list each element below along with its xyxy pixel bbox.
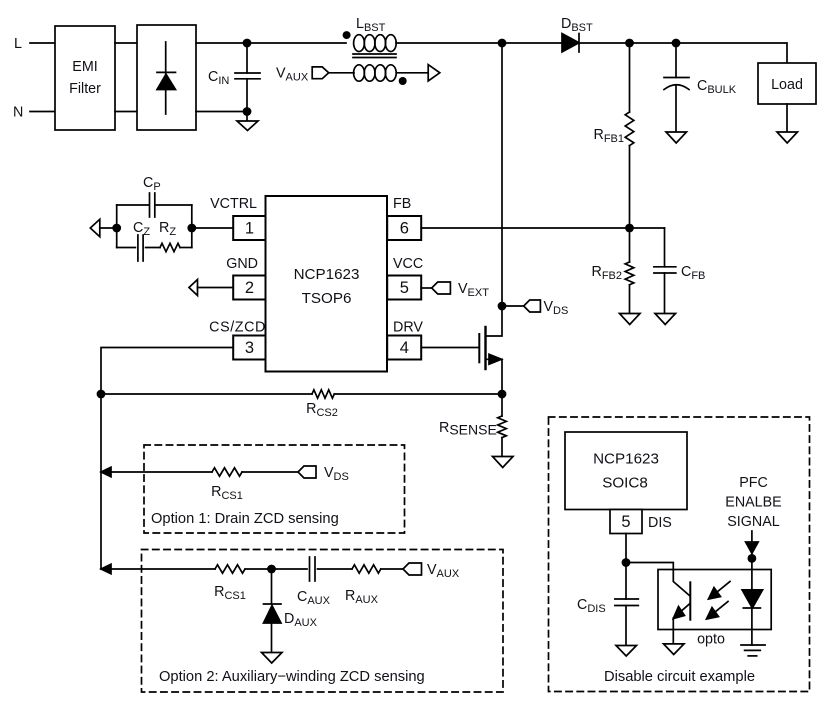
VAUX source tag: [276, 66, 329, 84]
ground below CFB: [655, 314, 676, 325]
svg-text:CS/ZCD: CS/ZCD: [209, 320, 266, 336]
wire winding to DBST: [396, 42, 562, 44]
wire CAUX to RAUX: [318, 568, 353, 570]
svg-text:Option 2: Auxiliary−winding ZC: Option 2: Auxiliary−winding ZCD sensing: [159, 669, 425, 685]
capacitor CAUX: [297, 557, 331, 607]
wire comp network to pin 1: [192, 227, 233, 229]
opto light arrows: [707, 582, 731, 620]
PFC enable text: [725, 475, 781, 530]
node comp left: [112, 224, 121, 233]
svg-text:DIS: DIS: [648, 515, 672, 531]
ground below RFB2: [620, 314, 641, 325]
wire to VDS tag: [502, 305, 524, 307]
wire N input: [30, 111, 55, 113]
svg-text:4: 4: [400, 339, 409, 357]
wire arrow to comp network: [100, 227, 117, 229]
ground below CIN: [237, 112, 258, 131]
pin 6 FB: [387, 196, 421, 240]
capacitor CFB: [654, 228, 705, 314]
pin 4 DRV: [387, 320, 423, 360]
wire pin 2 to arrow: [198, 287, 234, 289]
svg-text:5: 5: [400, 279, 409, 297]
svg-text:Disable circuit example: Disable circuit example: [604, 669, 755, 685]
node RFB1 top: [625, 39, 634, 48]
VEXT tag: [432, 281, 490, 299]
diode DBST: [561, 16, 593, 52]
capacitor CDIS: [577, 563, 638, 646]
option 2 dashed box: [142, 550, 504, 693]
wire bridge to boost inductor: [196, 42, 346, 44]
PFC enable arrow: [746, 531, 759, 553]
svg-text:5: 5: [621, 513, 630, 531]
inductor LBST label: [356, 16, 386, 34]
ground below opto emitter: [664, 644, 685, 655]
wire comp right vertical: [191, 205, 193, 248]
wire pin 4 to gate: [421, 347, 478, 349]
svg-text:ENALBE: ENALBE: [725, 495, 781, 511]
pin 5 VCC: [387, 256, 423, 300]
svg-text:FB: FB: [393, 196, 411, 212]
node CBULK top: [672, 39, 681, 48]
node VDS tap: [498, 302, 507, 311]
capacitor CIN: [208, 43, 260, 112]
resistor RAUX: [345, 565, 381, 606]
wire VAUX tag to aux winding: [329, 72, 354, 74]
wire option2: [108, 568, 215, 570]
resistor RCS1 option1: [211, 468, 243, 502]
svg-text:6: 6: [400, 220, 409, 238]
pin 1 VCTRL: [210, 196, 265, 240]
node DAUX junction: [267, 565, 276, 574]
svg-text:opto: opto: [697, 632, 725, 648]
resistor RSENSE: [439, 394, 506, 457]
resistor RCS2: [101, 390, 502, 419]
svg-text:1: 1: [245, 220, 254, 238]
capacitor CP: [117, 175, 192, 217]
ground below RSENSE: [493, 457, 514, 468]
wire RCS1 to VDS tag: [242, 471, 298, 473]
earth ground below LED: [741, 645, 765, 656]
node comp right: [187, 224, 196, 233]
aux output arrow: [428, 65, 440, 81]
op-amp U1 NCP1623 TSOP6 body: [266, 196, 388, 372]
compensation return arrow: [90, 219, 100, 236]
svg-text:Load: Load: [771, 77, 803, 93]
op-amp U2 NCP1623 SOIC8: [565, 432, 687, 510]
pin 2 GND: [226, 256, 265, 300]
pin 3 CS/ZCD: [209, 320, 266, 360]
VDS tag: [524, 299, 569, 317]
ground below load: [777, 132, 798, 143]
capacitor CBULK: [664, 43, 737, 132]
svg-text:NCP1623: NCP1623: [294, 266, 360, 283]
wire node to opto: [626, 563, 673, 571]
wire option1: [108, 471, 212, 473]
wire pin 6 FB to divider: [421, 227, 664, 229]
disable circuit dashed box: [549, 417, 810, 692]
svg-text:TSOP6: TSOP6: [302, 290, 352, 307]
wire EMI to bridge top: [115, 42, 137, 44]
resistor RFB1: [593, 43, 633, 228]
node CS junction: [97, 390, 106, 399]
wire drain vertical: [501, 43, 503, 306]
wire RCS1 to CAUX: [245, 568, 307, 570]
wire aux winding output: [396, 72, 428, 74]
svg-text:Option 1: Drain ZCD sensing: Option 1: Drain ZCD sensing: [151, 511, 339, 527]
aux winding: [354, 65, 407, 85]
resistor RZ: [159, 220, 192, 252]
VDS tag option1: [298, 465, 349, 483]
inductor LBST primary winding: [343, 31, 397, 51]
ground arrow pin 2: [189, 280, 198, 296]
svg-text:EMI: EMI: [72, 59, 97, 75]
opto phototransistor: [673, 570, 690, 644]
wire EMI to bridge bottom: [115, 111, 137, 113]
bridge rectifier: [137, 25, 196, 130]
resistor RFB2: [591, 228, 633, 314]
node DIS: [622, 558, 631, 567]
node at CIN bottom: [243, 107, 252, 116]
svg-text:PFC: PFC: [739, 475, 768, 491]
ground below CBULK: [666, 132, 687, 143]
node source junction: [498, 390, 507, 399]
wire pin 3 left: [101, 348, 233, 570]
EMI filter block: [55, 26, 115, 130]
transistor Q1: [479, 306, 502, 394]
wire RAUX to VAUX tag: [381, 568, 403, 570]
load block: [758, 63, 816, 104]
VAUX tag option2: [403, 562, 460, 580]
wire comp left vertical: [116, 205, 118, 248]
transformer core: [353, 54, 396, 58]
option 1 dashed box: [144, 445, 405, 533]
wire load to ground: [786, 104, 788, 132]
svg-text:2: 2: [245, 279, 254, 297]
node FB divider: [625, 224, 634, 233]
svg-text:VCC: VCC: [393, 256, 423, 272]
svg-text:Filter: Filter: [69, 81, 101, 97]
ground below CDIS: [616, 646, 637, 657]
capacitor CZ: [117, 220, 160, 261]
wire pin 5 to VEXT: [421, 287, 432, 289]
arrow option1 to CS node: [101, 467, 111, 477]
svg-text:GND: GND: [226, 256, 258, 272]
svg-text:SIGNAL: SIGNAL: [727, 514, 779, 530]
pin 5 DIS: [610, 510, 672, 534]
node N: [13, 105, 23, 121]
svg-text:VCTRL: VCTRL: [210, 196, 257, 212]
node L: [14, 36, 22, 52]
svg-text:3: 3: [245, 339, 254, 357]
wire L input: [30, 42, 55, 44]
svg-text:RSENSE: RSENSE: [439, 420, 497, 438]
svg-text:N: N: [13, 105, 23, 121]
node LED top: [748, 554, 757, 563]
wire pin5 down: [625, 534, 627, 563]
ground below DAUX: [262, 653, 283, 664]
node at CIN top: [243, 39, 252, 48]
opto LED: [742, 553, 763, 645]
node drain tap: [498, 39, 507, 48]
wire bridge bottom to CIN: [196, 111, 247, 113]
svg-text:SOIC8: SOIC8: [602, 475, 648, 492]
arrow option2 to CS node: [101, 564, 111, 574]
svg-text:NCP1623: NCP1623: [593, 451, 659, 468]
svg-text:L: L: [14, 36, 22, 52]
optocoupler box: [658, 570, 771, 630]
diode DAUX: [264, 569, 318, 653]
svg-text:DRV: DRV: [393, 320, 423, 336]
resistor RCS1 option2: [214, 565, 246, 602]
wire DBST to load: [579, 43, 787, 63]
